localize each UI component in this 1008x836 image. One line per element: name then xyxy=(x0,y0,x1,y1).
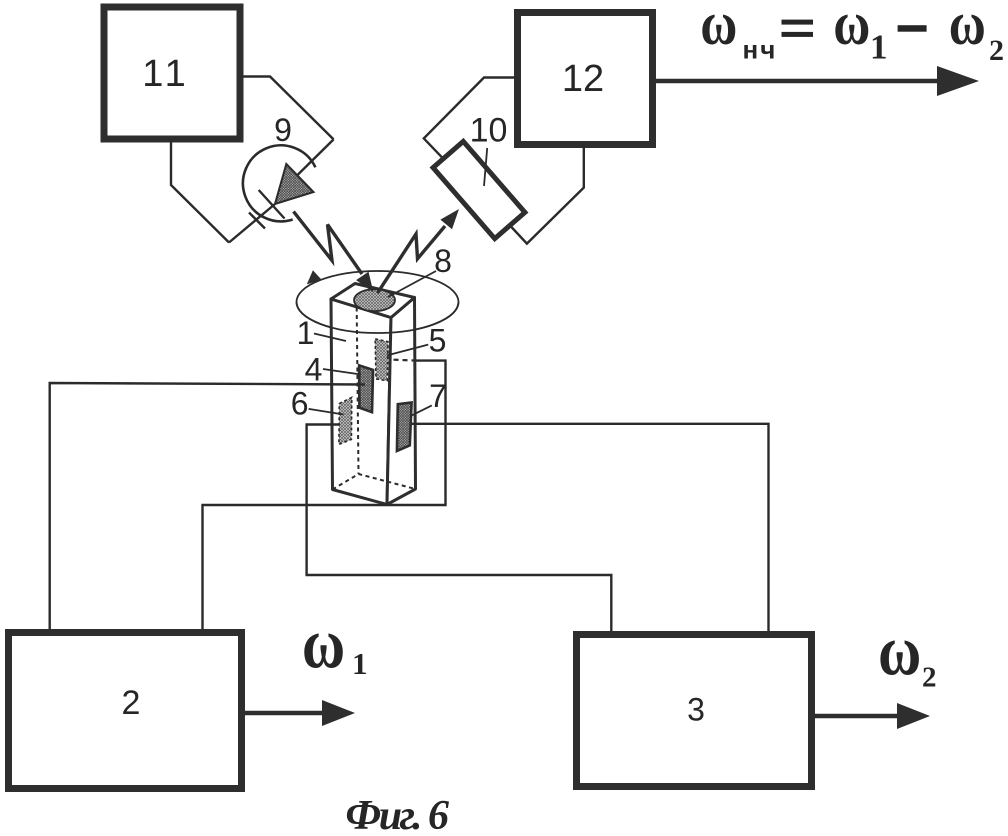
crystal 1 body (prism) xyxy=(331,284,416,505)
svg-text:нч: нч xyxy=(743,35,778,65)
svg-text:Фиг. 6: Фиг. 6 xyxy=(345,793,449,836)
svg-text:2: 2 xyxy=(122,684,141,722)
svg-text:2: 2 xyxy=(922,662,937,694)
photodetector 9 triangle xyxy=(275,164,314,204)
hidden back edge (dashed) xyxy=(357,300,359,474)
svg-text:1: 1 xyxy=(297,315,315,351)
output arrow from box 2 xyxy=(245,711,326,716)
svg-text:2: 2 xyxy=(989,34,1004,67)
svg-text:11: 11 xyxy=(142,53,189,95)
svg-text:10: 10 xyxy=(470,112,508,150)
right face xyxy=(387,298,416,505)
electrode 4 (solid outline) xyxy=(359,365,373,412)
wire from box 12 left edge to filter 10 xyxy=(424,78,518,159)
dashed part of W2 inside crystal to electrode 5 xyxy=(389,360,417,361)
box 3 xyxy=(577,635,812,787)
wire from box 11 right edge to photodetector 9 xyxy=(240,77,334,140)
box 2 xyxy=(9,633,242,789)
electrode 6 (dashed outline) xyxy=(339,397,352,444)
beam target ellipse 8 on top face xyxy=(354,289,395,311)
wire from box 11 bottom edge xyxy=(171,139,229,243)
beam arrow from 9 to crystal (lightning) xyxy=(294,212,363,275)
label 6 leader xyxy=(309,409,344,415)
output arrow from box 12 xyxy=(653,79,940,84)
svg-text:6: 6 xyxy=(291,385,309,421)
svg-text:ω: ω xyxy=(833,0,870,59)
svg-text:3: 3 xyxy=(687,692,705,728)
svg-text:12: 12 xyxy=(562,58,604,100)
label 5 leader xyxy=(387,345,428,356)
label 10 leader xyxy=(484,148,487,186)
svg-text:ω: ω xyxy=(878,611,921,691)
wire W1 from box 2 to electrode 4 xyxy=(50,383,365,631)
svg-text:1: 1 xyxy=(352,646,368,681)
label 1 leader xyxy=(314,334,346,342)
svg-text:1: 1 xyxy=(870,27,888,66)
filter 10 rotated rectangle xyxy=(433,141,525,238)
svg-text:8: 8 xyxy=(434,243,452,279)
photodetector 9 circle arc xyxy=(243,145,315,221)
top face xyxy=(331,284,415,318)
svg-text:ω: ω xyxy=(302,604,345,684)
box 12 xyxy=(518,13,653,145)
electrode 5 (dashed outline) xyxy=(375,339,388,381)
svg-text:9: 9 xyxy=(274,112,292,148)
wire segment turning into detector axis (upper) xyxy=(297,139,334,175)
box 11 xyxy=(104,7,240,139)
formula omega_nch = omega_1 - omega_2 xyxy=(700,0,1004,67)
label 4 leader xyxy=(323,369,361,375)
hidden bottom edges (dashed) xyxy=(333,474,416,490)
svg-text:ω: ω xyxy=(949,0,986,59)
svg-text:5: 5 xyxy=(429,323,447,359)
output arrow from box 3 xyxy=(815,714,900,719)
label 7 leader xyxy=(410,405,431,416)
front arc of rotation ellipse over crystal xyxy=(297,302,459,333)
beam arrow from crystal to filter 10 (lightning) xyxy=(378,226,446,293)
svg-text:4: 4 xyxy=(305,351,323,387)
label 8 leader xyxy=(388,271,436,297)
axis line lower into detector 9 xyxy=(229,204,275,243)
wire W3 from box 3 to electrode 6 xyxy=(307,425,612,634)
rotation direction arrowhead xyxy=(307,270,322,284)
front face xyxy=(331,299,391,505)
polarizer tick 1 xyxy=(259,190,285,219)
svg-text:ω: ω xyxy=(700,0,737,59)
wire W2 from box 2 under crystal to electrode 5 xyxy=(203,361,446,631)
rotation ellipse (full, back part will be covered by crystal) xyxy=(297,271,459,333)
wire from box 12 bottom edge to filter 10 xyxy=(510,145,584,244)
svg-text:7: 7 xyxy=(429,378,447,414)
wire W4 from box 3 to electrode 7 xyxy=(412,424,769,633)
polarizer tick 2 xyxy=(249,213,265,229)
electrode 7 (solid outline) xyxy=(397,403,412,452)
